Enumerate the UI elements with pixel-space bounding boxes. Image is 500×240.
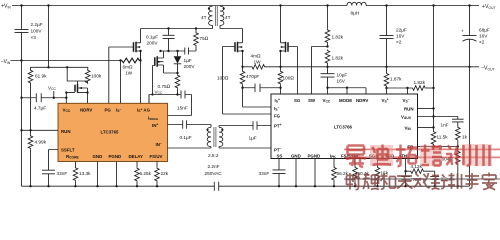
capacitor 33nF SS 3766 xyxy=(273,159,286,187)
svg-text:×3: ×3 xyxy=(31,35,37,40)
svg-text:2.2nF: 2.2nF xyxy=(208,164,220,169)
wire VCC 3766 column xyxy=(433,6,435,131)
svg-text:6mΩ: 6mΩ xyxy=(123,65,134,70)
svg-text:0.1µF: 0.1µF xyxy=(180,135,192,140)
svg-text:RCORE: RCORE xyxy=(66,154,79,160)
transistor M3 sync FET left xyxy=(223,43,243,67)
transformer T2 core xyxy=(214,127,216,147)
svg-text:1nF: 1nF xyxy=(441,123,449,128)
resistor 60.4k FS xyxy=(354,159,356,167)
svg-text:VCC: VCC xyxy=(63,108,71,114)
wire PGND 3766 column xyxy=(314,159,316,187)
svg-text:GND: GND xyxy=(93,154,103,159)
resistor 100 Ohm left xyxy=(242,67,244,71)
watermark row1 characters xyxy=(346,145,490,167)
svg-text:15nF: 15nF xyxy=(177,106,188,111)
svg-text:68µF: 68µF xyxy=(479,28,490,33)
svg-text:0.75Ω: 0.75Ω xyxy=(158,84,171,89)
transformer T1 primary winding xyxy=(209,6,213,28)
resistor 100k xyxy=(67,67,88,83)
junction dots -VIN rail xyxy=(119,59,121,61)
transformer T2 left winding xyxy=(207,127,211,146)
wire +VIN feed column B xyxy=(48,6,50,68)
wire SSFLT stub xyxy=(49,150,59,171)
svg-text:0.1µF: 0.1µF xyxy=(146,35,158,40)
transformer T1 secondary winding xyxy=(220,6,224,28)
transistor M1 primary forward MOSFET xyxy=(109,29,141,104)
resistor 1.82k lower xyxy=(325,50,330,65)
svg-text:×2: ×2 xyxy=(396,40,402,45)
svg-text:×2: ×2 xyxy=(479,40,485,45)
transformer T2 phase dots xyxy=(206,129,208,131)
wire -VIN rail xyxy=(11,60,121,62)
svg-text:22k: 22k xyxy=(161,171,169,176)
wire PGND pin column xyxy=(116,162,118,187)
diode clamp xyxy=(174,51,182,73)
wire divider line xyxy=(31,66,88,68)
capacitor 1uF PT xyxy=(253,121,257,129)
capacitor 2.2uF input xyxy=(15,6,29,61)
wire IS- route xyxy=(243,88,272,107)
resistor 0.75 Ohm xyxy=(175,74,180,89)
wire 15nF line to ISMAG xyxy=(149,95,192,116)
svg-text:−VOUT: −VOUT xyxy=(481,66,494,72)
svg-text:470pF: 470pF xyxy=(246,74,259,79)
svg-text:PGND: PGND xyxy=(308,153,321,158)
svg-text:1.82k: 1.82k xyxy=(332,56,344,61)
op-amp U2 LTC3766 box xyxy=(271,94,418,159)
svg-text:6.25k: 6.25k xyxy=(140,171,152,176)
wire VCC gate junction xyxy=(65,91,67,93)
svg-text:4.99k: 4.99k xyxy=(35,140,47,145)
svg-text:1.82k: 1.82k xyxy=(414,80,426,85)
capacitor 1uF 200V clamp xyxy=(185,48,189,55)
svg-text:61.9k: 61.9k xyxy=(35,74,47,79)
junction dots top rail xyxy=(20,4,22,6)
capacitor 470pF sense xyxy=(243,84,281,92)
svg-text:33nF: 33nF xyxy=(259,171,270,176)
junction dots divider xyxy=(47,66,49,68)
wire VCC MODE NDRV bus xyxy=(328,88,367,94)
capacitor 1nF xyxy=(452,119,464,126)
svg-text:1k: 1k xyxy=(462,135,468,140)
svg-text:SSFLT: SSFLT xyxy=(61,147,75,152)
capacitor 470pF ITH xyxy=(401,176,410,186)
resistor 1k xyxy=(456,126,461,141)
svg-text:GND: GND xyxy=(291,153,301,158)
svg-text:200V: 200V xyxy=(184,64,196,69)
svg-text:VAUX: VAUX xyxy=(401,114,412,120)
wire NDRV column xyxy=(86,91,88,93)
watermark pink highlight blocks xyxy=(370,145,393,166)
resistor 56.2k IPK xyxy=(333,159,335,167)
svg-text:10µF: 10µF xyxy=(337,73,348,78)
resistor 15k SGD xyxy=(377,159,379,167)
resistor 22k FS/UV xyxy=(156,162,158,168)
wire FG gate column xyxy=(223,47,272,115)
transformer T1 phase dots xyxy=(208,7,210,9)
svg-text:LTC3765: LTC3765 xyxy=(101,130,120,135)
svg-text:ISMAG: ISMAG xyxy=(148,115,159,121)
svg-text:16V: 16V xyxy=(337,79,346,84)
capacitor 4.7uF VCC xyxy=(36,93,41,102)
svg-text:+VOUT: +VOUT xyxy=(482,4,495,10)
wire top +VIN/secondary rail xyxy=(12,5,479,7)
capacitor 2.2uF ITH xyxy=(430,176,439,186)
resistor 11.5k xyxy=(431,131,436,146)
svg-text:+VIN: +VIN xyxy=(1,4,11,10)
inductor 8uH xyxy=(347,2,366,5)
node VCC stub left xyxy=(53,91,55,98)
capacitor 33nF softstart 3765 xyxy=(42,170,55,186)
svg-text:IPK: IPK xyxy=(330,153,336,159)
wire AG stub xyxy=(148,95,150,104)
svg-text:SS: SS xyxy=(277,153,283,158)
svg-text:FG: FG xyxy=(274,113,281,118)
wire RUN line xyxy=(22,129,59,131)
svg-text:8µH: 8µH xyxy=(351,11,360,16)
svg-text:NDRV: NDRV xyxy=(356,98,368,103)
capacitor 0.1uF gate drive xyxy=(183,120,187,128)
wire VS+ VS- pin columns xyxy=(387,88,408,94)
capacitor 10uF VCC3766 xyxy=(321,67,335,94)
resistor 1.82k horizontal VS xyxy=(387,87,412,89)
svg-text:1.82k: 1.82k xyxy=(332,35,344,40)
wire secondary bottom to forward FET xyxy=(220,29,243,43)
svg-text:16V: 16V xyxy=(396,34,405,39)
svg-text:IS+ AG: IS+ AG xyxy=(137,107,151,113)
transistor M2 active clamp PMOS xyxy=(153,51,178,95)
svg-text:+: + xyxy=(461,29,464,34)
svg-text:−VIN: −VIN xyxy=(1,59,11,65)
svg-text:PG: PG xyxy=(105,108,112,113)
svg-text:13.3k: 13.3k xyxy=(79,171,91,176)
svg-text:VCC: VCC xyxy=(323,98,331,104)
watermark row1 stroke lines xyxy=(344,149,500,157)
svg-text:11.5k: 11.5k xyxy=(437,135,449,140)
resistor 13.3k RCORE xyxy=(75,162,77,168)
wire VCC cap line xyxy=(22,97,67,99)
capacitor 0.1uF 200V clamp xyxy=(163,29,175,52)
wire RUN 3766 xyxy=(418,108,434,110)
wire ITH column xyxy=(405,159,407,177)
svg-text:VIN: VIN xyxy=(405,126,412,132)
wire left bus column A xyxy=(21,61,23,187)
wire IN+ line with 0.1uF xyxy=(168,125,212,128)
wire VIN 3766 xyxy=(418,127,434,129)
svg-text:2.2µF: 2.2µF xyxy=(31,22,43,27)
svg-text:1µF: 1µF xyxy=(249,136,257,141)
svg-text:MODE: MODE xyxy=(339,98,352,103)
wire -VOUT rail with 4mOhm xyxy=(243,66,252,68)
wire GND pin column xyxy=(97,162,99,187)
wire primary winding bottom xyxy=(141,28,213,30)
svg-text:DELAY: DELAY xyxy=(129,154,144,159)
wire PT+ line with 1uF xyxy=(219,126,271,128)
svg-text:RUN: RUN xyxy=(404,107,414,112)
resistor 604 Ohm xyxy=(457,147,459,151)
svg-text:SG: SG xyxy=(294,98,301,103)
svg-text:1.87k: 1.87k xyxy=(390,77,402,82)
transistor M4 sync FET right xyxy=(281,6,298,67)
svg-text:100V: 100V xyxy=(31,29,43,34)
wire SG column xyxy=(297,47,299,95)
svg-text:22µF: 22µF xyxy=(396,28,407,33)
svg-text:4T: 4T xyxy=(201,15,207,20)
svg-text:LTC3766: LTC3766 xyxy=(334,125,353,130)
wire IS+ pin column xyxy=(140,51,142,103)
svg-text:1W: 1W xyxy=(254,60,262,65)
svg-text:2.5:2: 2.5:2 xyxy=(208,153,219,158)
svg-text:RUN: RUN xyxy=(61,129,71,134)
capacitor 15nF xyxy=(181,91,185,99)
resistor 61.9k xyxy=(30,67,32,130)
transistor Q1 VCC source follower xyxy=(66,81,87,103)
wire -VOUT to bottom column xyxy=(469,67,471,186)
wire bottom ground rail xyxy=(22,185,470,187)
svg-text:SW: SW xyxy=(308,98,316,103)
wire GND 3766 column xyxy=(295,159,297,187)
wire clamp top line xyxy=(160,50,196,52)
wire IN- line xyxy=(168,147,272,148)
watermark row2 gray strikethrough xyxy=(344,178,500,180)
wire IS- pin column xyxy=(120,61,122,104)
watermark row2 characters xyxy=(347,173,498,191)
wire IS+ column xyxy=(280,88,282,94)
svg-text:100k: 100k xyxy=(91,74,102,79)
resistor 4.12k ITH xyxy=(406,170,410,172)
svg-text:4T: 4T xyxy=(225,15,231,20)
capacitor 22uF xyxy=(380,6,394,67)
wire SW column and divider tap xyxy=(312,47,328,95)
resistor 75 Ohm xyxy=(195,29,197,33)
svg-text:250VAC: 250VAC xyxy=(205,171,223,176)
wire VAUX line xyxy=(418,117,458,120)
svg-text:200V: 200V xyxy=(147,41,159,46)
svg-text:4mΩ: 4mΩ xyxy=(251,54,262,59)
svg-text:33nF: 33nF xyxy=(57,171,68,176)
svg-text:75Ω: 75Ω xyxy=(200,36,209,41)
svg-text:1W: 1W xyxy=(125,71,133,76)
resistor 6.25k DELAY xyxy=(136,162,138,168)
op-amp U1 LTC3765 box xyxy=(58,103,168,161)
svg-text:NDRV: NDRV xyxy=(80,108,92,113)
resistor 1.82k upper xyxy=(327,6,329,29)
wire FB line xyxy=(418,146,458,148)
resistor 100 Ohm right xyxy=(280,67,282,71)
svg-text:PGND: PGND xyxy=(109,154,122,159)
resistor 1.87k VS divider xyxy=(386,67,388,73)
capacitor 68uF polarized xyxy=(463,6,477,67)
transformer T1 core xyxy=(215,6,217,26)
svg-text:1µF: 1µF xyxy=(184,58,192,63)
svg-text:100Ω: 100Ω xyxy=(283,76,295,81)
resistor 4.99k xyxy=(30,130,32,135)
resistor 6mOhm sense xyxy=(121,58,141,63)
svg-text:16V: 16V xyxy=(479,34,488,39)
svg-text:100Ω: 100Ω xyxy=(217,76,229,81)
svg-text:VCC: VCC xyxy=(48,86,56,92)
svg-text:4.7µF: 4.7µF xyxy=(34,106,46,111)
transformer T2 right winding xyxy=(219,127,223,146)
svg-text:FS/UV: FS/UV xyxy=(150,154,163,159)
